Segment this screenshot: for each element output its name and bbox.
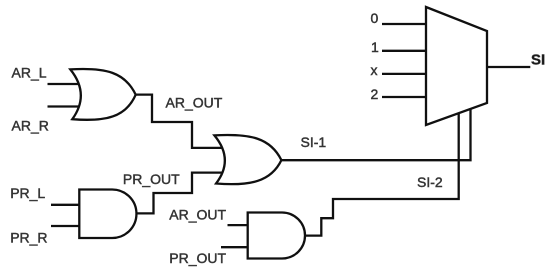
svg-text:PR_OUT: PR_OUT bbox=[169, 250, 226, 266]
svg-text:2: 2 bbox=[371, 86, 379, 102]
svg-text:AR_OUT: AR_OUT bbox=[169, 206, 226, 222]
svg-text:AR_R: AR_R bbox=[12, 117, 49, 133]
svg-text:SI-2: SI-2 bbox=[417, 174, 443, 190]
wire SI-1 net (OR U3 output to mux) bbox=[281, 106, 471, 160]
or-gate U3 (middle OR) bbox=[214, 135, 281, 184]
wire mux input 2 bbox=[382, 96, 428, 98]
wire mux input 1 bbox=[382, 50, 428, 52]
wire AR_L input bbox=[48, 83, 87, 85]
svg-text:x: x bbox=[371, 62, 378, 78]
svg-text:SI: SI bbox=[531, 51, 545, 68]
or-gate U1 (AR) bbox=[70, 69, 135, 120]
svg-text:1: 1 bbox=[371, 39, 379, 55]
wire SI-2 net (AND U4 output to mux) bbox=[304, 111, 459, 236]
svg-text:AR_L: AR_L bbox=[12, 64, 47, 80]
and-gate U4 (bottom AND) bbox=[248, 213, 305, 259]
svg-text:PR_L: PR_L bbox=[10, 185, 45, 201]
svg-text:PR_OUT: PR_OUT bbox=[123, 171, 180, 187]
wire PR_OUT net (gate U2 output to OR U3 bottom input) bbox=[136, 173, 228, 214]
svg-text:PR_R: PR_R bbox=[10, 230, 47, 246]
wire AR_OUT net (gate U1 output to OR U3 top input) bbox=[135, 95, 226, 148]
wire mux input x bbox=[382, 73, 428, 75]
wire PR_OUT input to AND U4 bbox=[221, 246, 256, 248]
wire AR_OUT input to AND U4 bbox=[228, 224, 257, 226]
and-gate U2 (PR) bbox=[79, 190, 136, 239]
wire PR_L input bbox=[51, 204, 86, 206]
wire AR_R input bbox=[48, 105, 87, 107]
svg-text:AR_OUT: AR_OUT bbox=[166, 95, 223, 111]
wire mux input 0 bbox=[382, 23, 428, 25]
svg-text:0: 0 bbox=[371, 10, 379, 26]
mux U5 (trapezoid) bbox=[426, 7, 487, 125]
wire PR_R input bbox=[51, 225, 86, 227]
svg-text:SI-1: SI-1 bbox=[301, 134, 327, 150]
wire SI output bbox=[486, 66, 530, 68]
